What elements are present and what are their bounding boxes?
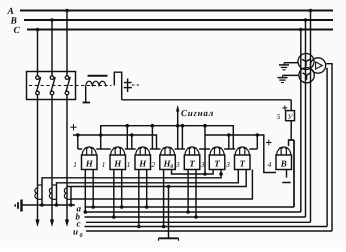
svg-text:1: 1 bbox=[102, 160, 106, 169]
svg-text:Н: Н bbox=[113, 158, 122, 168]
svg-text:1: 1 bbox=[127, 160, 131, 169]
svg-text:В: В bbox=[280, 158, 287, 168]
svg-text:3: 3 bbox=[225, 160, 230, 169]
svg-text:3: 3 bbox=[200, 160, 205, 169]
svg-text:Т: Т bbox=[189, 158, 195, 168]
svg-text:1: 1 bbox=[73, 160, 77, 169]
svg-text:3: 3 bbox=[175, 160, 180, 169]
svg-text:А: А bbox=[7, 7, 14, 17]
svg-text:2: 2 bbox=[151, 160, 155, 169]
svg-text:4: 4 bbox=[268, 160, 272, 169]
svg-text:В: В bbox=[10, 17, 17, 27]
svg-text:0: 0 bbox=[80, 233, 83, 239]
svg-text:Н: Н bbox=[85, 158, 94, 168]
svg-text:Сигнал: Сигнал bbox=[181, 108, 214, 118]
svg-text:Т: Т bbox=[240, 158, 246, 168]
svg-text:0: 0 bbox=[170, 164, 173, 170]
svg-text:и: и bbox=[73, 227, 78, 237]
svg-text:С: С bbox=[14, 26, 21, 36]
svg-text:Н: Н bbox=[138, 158, 147, 168]
svg-text:Т: Т bbox=[214, 158, 220, 168]
svg-text:5: 5 bbox=[277, 112, 281, 121]
